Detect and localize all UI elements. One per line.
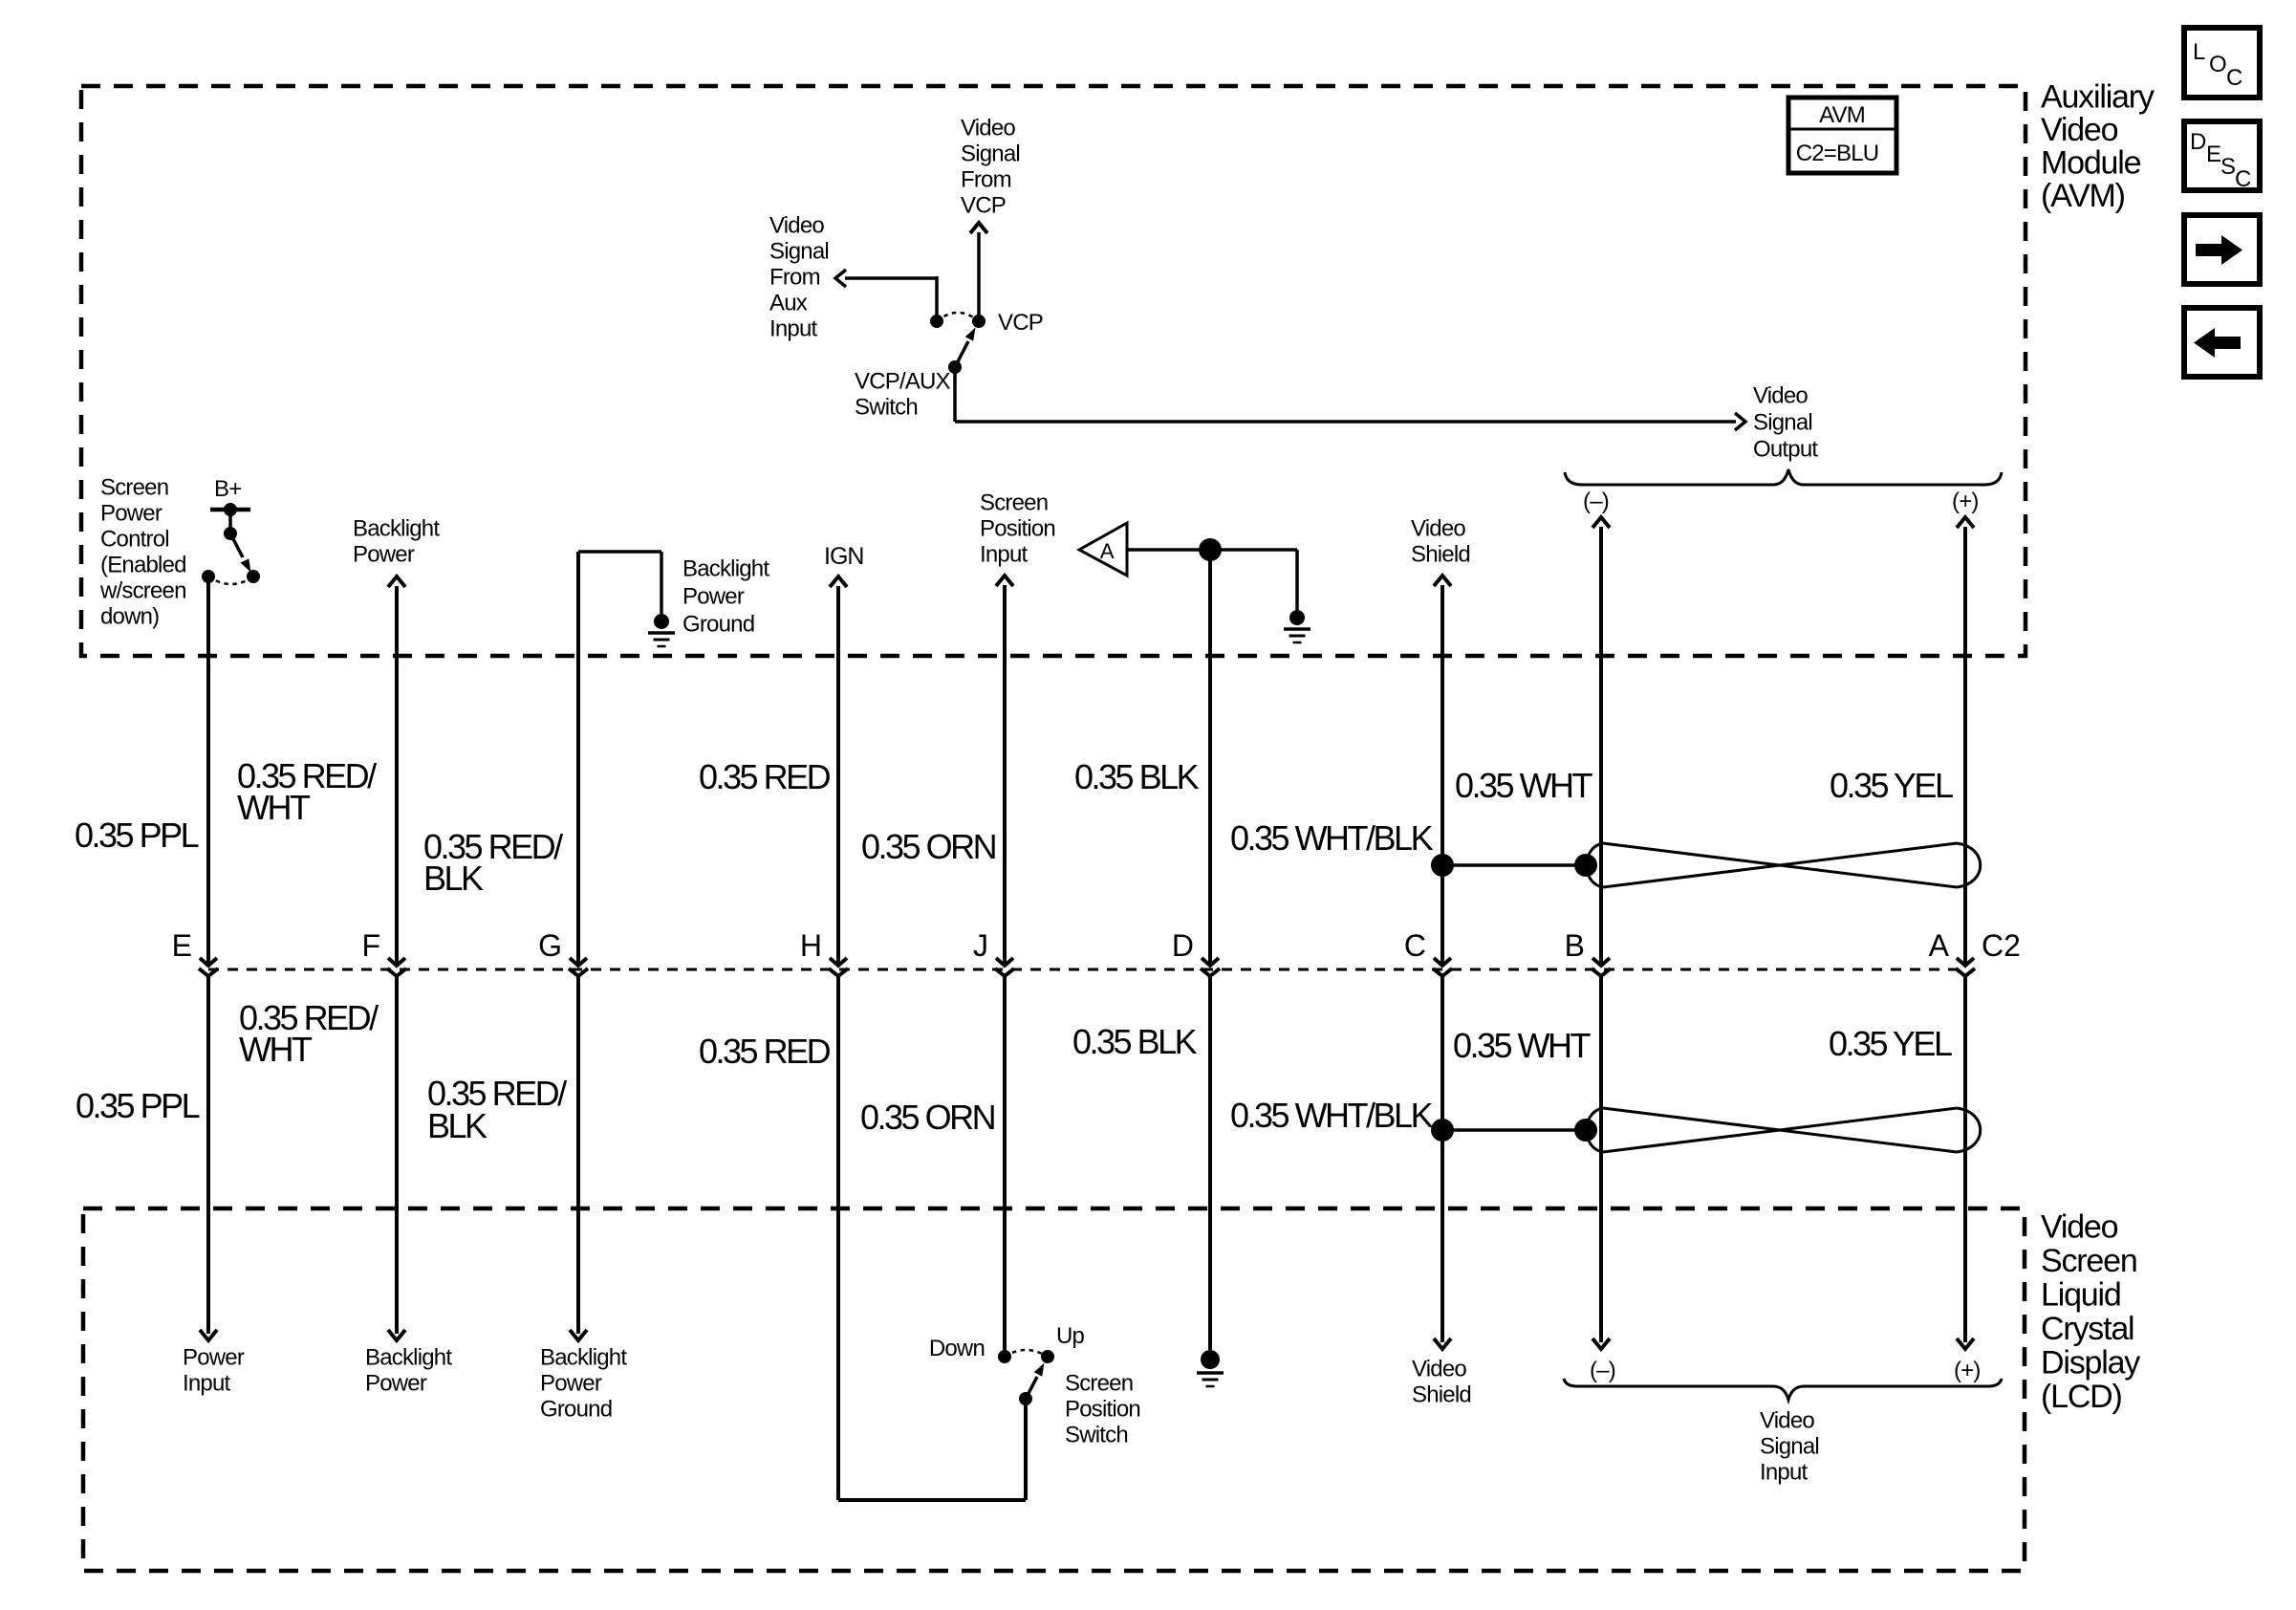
svg-text:Input: Input — [769, 315, 818, 341]
pin F connector arrowheads — [388, 958, 405, 966]
wire G riser and jog to backlight ground — [576, 552, 580, 966]
wire F arrow up (Backlight Power) — [395, 586, 399, 966]
svg-text:C2: C2 — [1982, 928, 2021, 963]
svg-text:From: From — [769, 264, 820, 290]
svg-text:Power: Power — [183, 1344, 245, 1370]
id box AVM / C2=BLU — [1788, 98, 1896, 173]
switch S1 VCP/AUX: dashed throw arc — [937, 313, 979, 321]
wire C arrow up (Video Shield) — [1440, 585, 1444, 966]
legend box LOC — [2184, 28, 2260, 98]
wire D lower (0.35 BLK) — [1208, 976, 1212, 1350]
svg-text:0.35 PPL: 0.35 PPL — [76, 1086, 200, 1125]
pin D connector arrowheads — [1202, 958, 1219, 966]
svg-text:Power: Power — [540, 1370, 602, 1396]
svg-text:G: G — [538, 928, 562, 963]
svg-text:Input: Input — [1760, 1459, 1809, 1485]
svg-text:Power: Power — [682, 583, 745, 609]
svg-text:O: O — [2209, 52, 2226, 77]
svg-text:Auxiliary: Auxiliary — [2041, 78, 2155, 115]
svg-text:Switch: Switch — [855, 394, 918, 420]
svg-text:E: E — [172, 928, 192, 963]
svg-text:0.35 WHT: 0.35 WHT — [1453, 1026, 1592, 1065]
svg-text:Power: Power — [100, 500, 162, 526]
svg-text:IGN: IGN — [824, 543, 863, 570]
svg-text:0.35 WHT/BLK: 0.35 WHT/BLK — [1230, 1096, 1434, 1135]
wire J arrow up (Screen Position Input) — [1003, 585, 1007, 966]
svg-text:L: L — [2193, 39, 2205, 65]
legend box arrow left — [2184, 308, 2260, 377]
svg-text:H: H — [800, 928, 822, 963]
svg-text:0.35 WHT/BLK: 0.35 WHT/BLK — [1230, 818, 1434, 858]
svg-text:0.35 PPL: 0.35 PPL — [75, 816, 199, 855]
wire: video signal from aux input (arrow left + corner down) — [845, 276, 937, 280]
svg-text:Signal: Signal — [1753, 409, 1812, 435]
svg-text:Backlight: Backlight — [682, 555, 769, 581]
svg-text:Switch: Switch — [1065, 1422, 1128, 1447]
module box U1 Auxiliary Video Module (AVM), dashed outline — [81, 86, 2025, 656]
svg-text:D: D — [1172, 928, 1194, 963]
svg-text:(LCD): (LCD) — [2041, 1379, 2122, 1415]
svg-text:A: A — [1100, 539, 1115, 563]
svg-text:Ground: Ground — [682, 611, 754, 637]
svg-text:VCP: VCP — [961, 192, 1006, 218]
svg-text:C: C — [1404, 928, 1426, 963]
svg-text:Up: Up — [1056, 1323, 1085, 1349]
svg-text:w/screen: w/screen — [99, 577, 186, 603]
connector line C1 (dashed) — [208, 968, 1965, 971]
svg-text:Down: Down — [929, 1336, 985, 1361]
switch S2 screen power: lever with arrowhead — [230, 533, 243, 557]
wire E lower (0.35 PPL) — [206, 976, 210, 1334]
svg-text:Module: Module — [2041, 144, 2141, 181]
wire B lower (0.35 WHT) — [1599, 976, 1603, 1342]
node: aux input contact dot — [930, 315, 943, 328]
node: switch S3 pivot dot — [1019, 1392, 1032, 1405]
pin J connector arrowheads — [996, 958, 1013, 966]
svg-text:0.35 ORN: 0.35 ORN — [860, 1098, 995, 1137]
svg-text:Shield: Shield — [1411, 541, 1470, 567]
svg-text:Position: Position — [980, 515, 1055, 541]
svg-text:J: J — [973, 928, 988, 963]
svg-text:Position: Position — [1065, 1396, 1140, 1422]
svg-text:B: B — [1565, 928, 1585, 963]
svg-text:C: C — [2235, 166, 2251, 192]
brace: video signal output pair — [1565, 469, 2002, 485]
node: twisted pair end dot (upper) — [1574, 854, 1597, 877]
wire: buffer output to wire D junction — [1127, 548, 1297, 552]
svg-text:Video: Video — [961, 115, 1015, 141]
svg-text:Screen: Screen — [2041, 1243, 2137, 1279]
wire H lower (0.35 RED) to screen position switch — [836, 976, 840, 1500]
wire: branch down to AVM ground — [1295, 550, 1299, 610]
svg-text:WHT: WHT — [239, 1030, 313, 1069]
buffer U3 triangle with A — [1079, 523, 1127, 576]
svg-text:Backlight: Backlight — [540, 1344, 627, 1370]
svg-text:Video: Video — [1753, 382, 1808, 408]
svg-text:A: A — [1929, 928, 1950, 963]
svg-text:WHT: WHT — [237, 788, 311, 827]
pin E connector arrowheads — [200, 958, 217, 966]
svg-text:0.35 BLK: 0.35 BLK — [1072, 1022, 1198, 1061]
svg-text:Video: Video — [2041, 1208, 2118, 1245]
svg-text:down): down) — [100, 603, 159, 629]
wire A arrow up to (+) — [1963, 527, 1967, 966]
node: B+ bar dot — [224, 503, 237, 516]
svg-text:Shield: Shield — [1412, 1382, 1471, 1407]
svg-text:(AVM): (AVM) — [2041, 178, 2125, 214]
svg-text:Video: Video — [1412, 1356, 1466, 1382]
svg-text:0.35 YEL: 0.35 YEL — [1830, 766, 1953, 805]
node: Down contact dot (wire J end) — [998, 1350, 1011, 1363]
pin A connector arrowheads — [1957, 958, 1974, 966]
pin H connector arrowheads — [830, 958, 847, 966]
svg-text:AVM: AVM — [1819, 102, 1865, 128]
wire: shield link C to twisted pair (lower) — [1442, 1128, 1586, 1132]
wire D vertical (0.35 BLK) — [1208, 550, 1212, 966]
svg-text:VCP: VCP — [998, 310, 1043, 336]
twisted pair symbol (lower) — [1603, 1108, 1957, 1152]
brace: video signal input pair — [1564, 1379, 2002, 1400]
svg-text:(–): (–) — [1583, 489, 1609, 514]
svg-text:C2=BLU: C2=BLU — [1796, 141, 1879, 166]
svg-text:Signal: Signal — [769, 238, 829, 264]
svg-text:(–): (–) — [1590, 1358, 1615, 1383]
wire H arrow up (IGN) — [836, 586, 840, 966]
wire J lower (0.35 ORN) — [1003, 976, 1007, 1351]
svg-text:BLK: BLK — [427, 1106, 487, 1145]
wire: B+ stub — [228, 510, 232, 533]
svg-text:Signal: Signal — [1760, 1433, 1819, 1459]
node: wire E top contact dot — [202, 570, 215, 583]
wire F lower (0.35 RED/WHT) — [395, 976, 399, 1334]
svg-text:0.35 ORN: 0.35 ORN — [861, 827, 996, 866]
pin C connector arrowheads — [1434, 958, 1451, 966]
ground: screen position signal ground (AVM) — [1289, 610, 1305, 625]
node: wire D junction dot — [1199, 538, 1222, 561]
svg-text:Liquid: Liquid — [2041, 1276, 2121, 1313]
svg-text:B+: B+ — [214, 476, 241, 502]
ground: backlight power ground — [654, 614, 669, 629]
svg-text:Video: Video — [769, 212, 824, 238]
pin B connector arrowheads — [1592, 958, 1610, 966]
svg-text:Video: Video — [1760, 1407, 1814, 1433]
svg-text:Output: Output — [1753, 436, 1818, 462]
svg-text:Video: Video — [2041, 112, 2118, 148]
svg-text:F: F — [361, 928, 380, 963]
wire: switch common down then right to video signal output — [953, 367, 957, 422]
svg-text:Input: Input — [980, 541, 1029, 567]
wire: shield link C to twisted pair (upper) — [1442, 863, 1586, 867]
svg-text:Backlight: Backlight — [353, 515, 440, 541]
node: switch S2 pivot dot — [224, 527, 237, 540]
node: screen power contact dot — [247, 570, 260, 583]
svg-text:E: E — [2206, 141, 2220, 167]
svg-text:Crystal: Crystal — [2041, 1311, 2134, 1347]
svg-text:Screen: Screen — [980, 490, 1048, 515]
power symbol B+ terminal bar — [210, 508, 250, 512]
svg-text:Signal: Signal — [961, 141, 1020, 166]
switch S2: dashed throw arc — [208, 577, 253, 584]
svg-text:C: C — [2226, 65, 2242, 91]
wire E upper (0.35 PPL) — [206, 577, 210, 966]
module box U2 Video Screen Liquid Crystal Display (LCD), dashed outline — [83, 1208, 2025, 1571]
svg-text:0.35 RED: 0.35 RED — [699, 757, 831, 796]
svg-text:0.35 RED: 0.35 RED — [699, 1032, 831, 1071]
svg-text:Ground: Ground — [540, 1396, 612, 1422]
svg-text:S: S — [2220, 154, 2235, 180]
svg-text:(Enabled: (Enabled — [100, 552, 186, 577]
legend box arrow right — [2184, 215, 2260, 284]
node: twisted pair end dot (lower) — [1574, 1119, 1597, 1142]
switch S1 VCP/AUX: lever with arrowhead — [955, 341, 968, 367]
svg-text:Control: Control — [100, 526, 169, 552]
svg-text:Aux: Aux — [769, 290, 808, 315]
svg-text:0.35 WHT: 0.35 WHT — [1455, 766, 1593, 805]
svg-text:Screen: Screen — [100, 474, 168, 500]
svg-text:Power: Power — [353, 541, 415, 567]
wire C lower (0.35 WHT/BLK) — [1440, 976, 1444, 1342]
switch S3 screen position: dashed throw arc — [1005, 1350, 1048, 1357]
legend box DESC — [2184, 121, 2260, 190]
node: Up contact dot — [1041, 1350, 1054, 1363]
svg-text:Screen: Screen — [1065, 1370, 1133, 1396]
svg-text:Power: Power — [365, 1370, 427, 1396]
twisted pair symbol (upper) — [1603, 843, 1957, 887]
node: shield junction dot on wire C (lower) — [1431, 1119, 1454, 1142]
svg-text:Video: Video — [1411, 515, 1465, 541]
wire: video signal output arrowhead — [1735, 413, 1745, 430]
svg-text:From: From — [961, 166, 1011, 192]
svg-text:VCP/AUX: VCP/AUX — [855, 368, 951, 394]
svg-text:Display: Display — [2041, 1344, 2140, 1381]
wire: video signal from VCP (vertical, arrow up) — [977, 232, 981, 321]
svg-text:Input: Input — [183, 1370, 231, 1396]
node: VCP contact dot — [972, 315, 986, 328]
svg-text:0.35 BLK: 0.35 BLK — [1074, 757, 1200, 796]
svg-text:BLK: BLK — [423, 859, 484, 898]
svg-text:(+): (+) — [1954, 1358, 1981, 1383]
svg-text:0.35 YEL: 0.35 YEL — [1829, 1024, 1952, 1063]
wire A lower (0.35 YEL) — [1963, 976, 1967, 1342]
wire B arrow up to (-) — [1599, 527, 1603, 966]
node: shield junction dot on wire C (upper) — [1431, 854, 1454, 877]
switch S3: lever with arrowhead — [1026, 1377, 1037, 1399]
ground: LCD video ground — [1201, 1350, 1220, 1369]
node: switch S1 pivot dot — [948, 360, 962, 374]
pin G connector arrowheads — [570, 958, 587, 966]
svg-text:(+): (+) — [1952, 489, 1979, 514]
svg-text:D: D — [2190, 129, 2206, 155]
svg-text:Backlight: Backlight — [365, 1344, 452, 1370]
wire G lower (0.35 RED/BLK) — [576, 976, 580, 1334]
